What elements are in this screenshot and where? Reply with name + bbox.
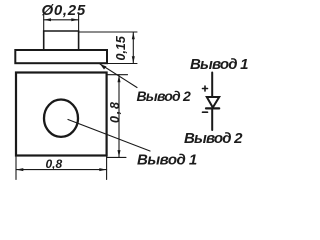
svg-text:Вывод 1: Вывод 1 [137,152,197,169]
plus sign [203,86,208,91]
hole circle [44,100,78,137]
extension line from lead top right [79,31,137,33]
leader line to Vyvod 1 [68,120,150,152]
diode cathode bar [206,107,219,109]
svg-text:Вывод 2: Вывод 2 [184,130,243,147]
extension line from square top right [107,74,128,76]
diode symbol wire top [211,73,213,98]
arrowheads 0,8 bottom [16,168,23,171]
dimension line 0,15 [132,32,134,64]
package body square [16,73,107,156]
arrowheads d0,25 [44,18,51,21]
diode wire bottom [211,108,213,130]
svg-text:Ø0,25: Ø0,25 [42,2,86,19]
diode triangle [207,97,219,108]
flange rectangle [15,50,107,63]
dimension line 0,8 right [118,75,120,157]
text 0,8 right (rotated) [108,100,122,123]
arrowhead leader Vyvod2 [100,64,107,70]
svg-text:0,8: 0,8 [108,100,122,123]
svg-text:Вывод 1: Вывод 1 [190,56,248,73]
extension line from flange bottom right [107,63,137,65]
extension line from square bottom right [107,156,126,158]
dimension line d0,25 [44,19,79,21]
svg-text:Вывод 2: Вывод 2 [137,88,191,104]
minus sign [203,111,208,113]
svg-text:0,15: 0,15 [114,35,128,60]
extension lines above lead [44,14,79,31]
text 0,15 (rotated) [114,34,128,62]
extension lines below square [16,157,107,180]
leader line to Vyvod 2 [100,64,137,88]
dimension line 0,8 bottom [16,169,107,171]
svg-text:0,8: 0,8 [46,157,63,171]
lead (pin) rectangle [44,31,79,50]
arrowheads 0,8 right [118,75,121,82]
arrowheads 0,15 [132,32,135,39]
